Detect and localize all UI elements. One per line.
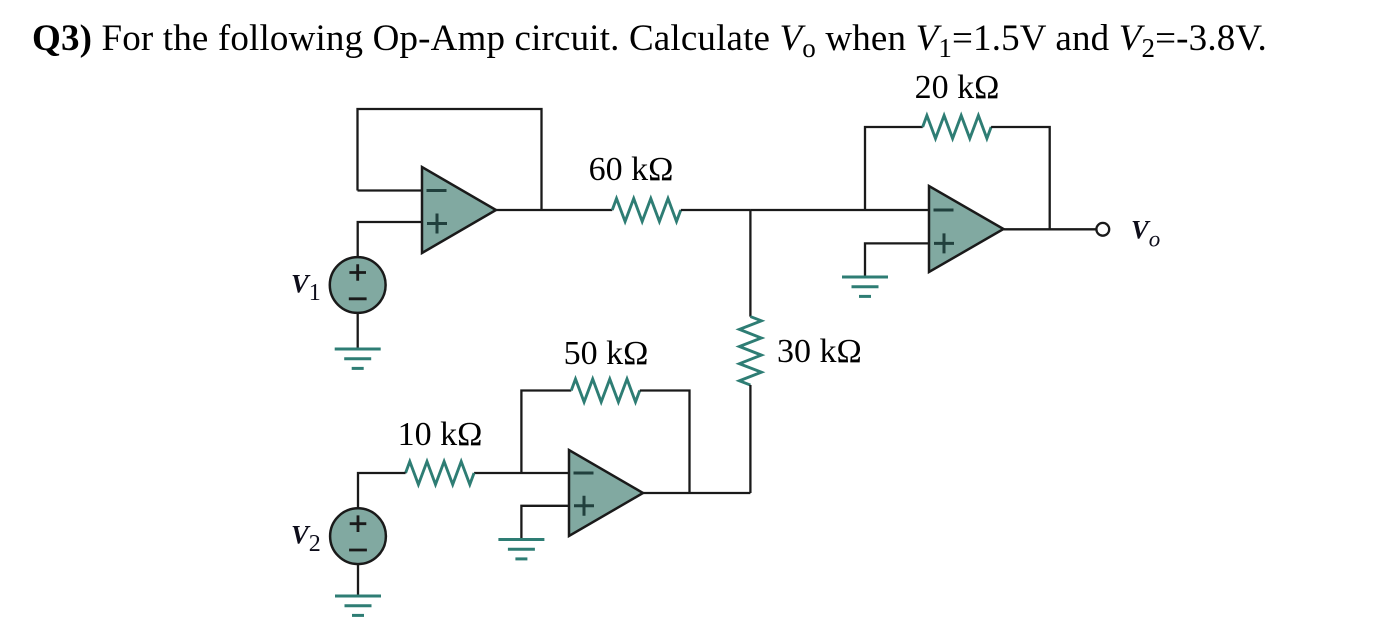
wire V2 to R4 (358, 473, 406, 508)
op-amp U1 (422, 167, 496, 253)
wire U2 inverting input (474, 472, 569, 474)
svg-text:V1: V1 (291, 269, 321, 307)
svg-text:50 kΩ: 50 kΩ (564, 335, 649, 372)
wire U3 output (1004, 228, 1097, 230)
source V2 (330, 508, 386, 564)
op-amp U3 (929, 186, 1004, 272)
wire V1 to ground (357, 313, 359, 349)
wire to U3 inverting input (865, 209, 929, 211)
ground under V2 (335, 596, 381, 615)
wire U2 non-inverting input (521, 506, 569, 540)
resistor R4 10k (406, 462, 475, 485)
wire U1 feedback loop (358, 109, 542, 210)
svg-text:30 kΩ: 30 kΩ (777, 333, 862, 370)
wire U2 output (643, 492, 750, 494)
wire U2 feedback left leg (521, 391, 571, 474)
wire U3 feedback left leg (865, 127, 923, 210)
wire U3 non-inverting input (865, 243, 929, 277)
wire U1 output (496, 209, 612, 211)
wire R30k to U2 output (749, 385, 751, 493)
source V1 (330, 257, 386, 313)
resistor R1 60k (612, 199, 681, 222)
terminal Vo (1096, 223, 1109, 236)
op-amp U2 (569, 450, 643, 536)
ground at U2 non-inverting input (498, 540, 544, 559)
resistor R2 30k (739, 317, 761, 386)
svg-text:60 kΩ: 60 kΩ (589, 151, 674, 188)
ground under V1 (335, 349, 381, 368)
svg-text:10 kΩ: 10 kΩ (398, 416, 483, 453)
svg-text:V2: V2 (291, 520, 321, 558)
wire R1 to node A (681, 209, 751, 211)
wire node A down to R30k (749, 210, 751, 317)
wire U3 feedback right leg (991, 127, 1050, 229)
wire node A to U3 feedback junction (750, 209, 865, 211)
wire V2 to ground (357, 564, 359, 596)
wire U2 feedback right leg (640, 391, 690, 494)
svg-text:20 kΩ: 20 kΩ (915, 69, 1000, 106)
resistor R5 20k (923, 116, 992, 139)
ground at U3 non-inverting input (842, 277, 888, 296)
resistor R3 50k (571, 379, 640, 402)
question title text (32, 22, 1267, 56)
wire U1 inverting input (358, 189, 423, 191)
wire U1 non-inverting input to V1 (358, 222, 422, 258)
svg-text:Vo: Vo (1131, 215, 1160, 252)
